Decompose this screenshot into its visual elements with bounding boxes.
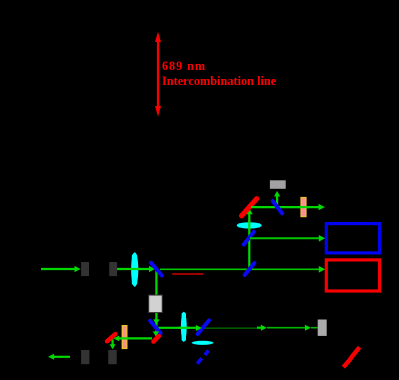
isolator block B [109,262,117,276]
arrow into red box [319,266,325,273]
wire: PBS4 up to photodiode [276,197,278,207]
wire: M2 down into block D [111,340,113,345]
photodiode [270,180,286,189]
PBS3 (to blue box) [244,232,254,245]
isolator block C [81,350,89,364]
blocked beam (dark red) [172,273,203,275]
lens L1 [131,252,138,287]
red box (experiment) [326,260,379,291]
PBS2 (on main line) [245,263,255,275]
PBS1 [151,263,162,276]
lens L3 (horizontal) [237,222,262,228]
waveplate WP1 [301,198,306,217]
wire: M1 left through waveplate [119,337,152,339]
wire: PBS3 right into blue box [250,237,319,239]
isolator block A [81,262,89,276]
waveplate WP2 [122,326,127,349]
mirror M3 [242,199,257,216]
wire: dark green from PBS6 to mid arrow [203,327,257,329]
label: 689 nm Intercombination line [162,59,276,89]
wire: block B to PBS1 [117,266,155,272]
wire: PBS5 right toward cavity arm [157,327,198,329]
wire: arrow into PBS5 [153,319,159,324]
wire: beam over lens [178,327,190,329]
flip mirror (dashed blue) [197,351,208,364]
wire: input beam to first stage [41,266,81,272]
blue box (cavity) [326,224,379,253]
AOM (gray square) [149,295,163,312]
PBS4 [273,201,282,213]
wire: beam over waveplate [298,206,309,208]
mid arrow on cavity beam [257,327,262,329]
mirror M2 [107,334,115,341]
689nm transition double arrow [155,32,161,117]
wavy red arrow (to experiment) [343,347,359,367]
wire: PBS5 down arrow [153,331,159,336]
isolator block D [108,350,117,364]
wire: to gray port [267,327,305,329]
cylindrical lens (lozenge) [192,341,214,345]
lens L2 (vertical, bottom-right arm) [181,312,187,342]
mirror M1 (below PBS5) [154,336,159,342]
gray port (bottom right) [318,320,327,336]
wire: PBS1 down through AOM to mirror M1 [155,270,157,336]
wire: output arrow to the left [54,356,70,358]
wire: riser over lens [248,220,250,230]
wire: vertical riser from main line up to mirror M3 [248,214,250,269]
PBS5 [150,321,160,333]
PBS6 [198,320,209,334]
wire: PBS1 to red box (main line) [160,268,319,270]
arrow at PBS6 [196,325,202,331]
wire: M3 right through PBS4 and waveplate [251,206,319,208]
